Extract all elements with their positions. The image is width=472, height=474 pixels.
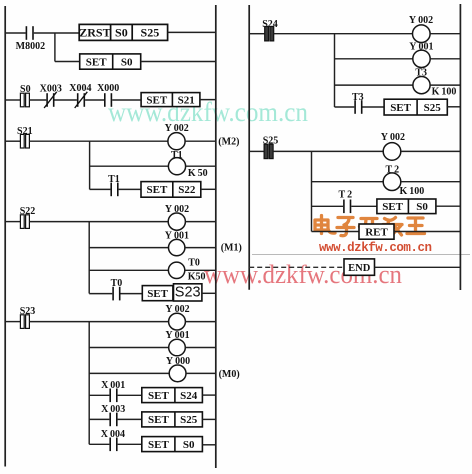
wire rung6 left bbox=[249, 33, 264, 35]
svg-text:K 100: K 100 bbox=[400, 186, 425, 197]
function block SET (S23) bbox=[142, 286, 173, 301]
wire X003 to SET S25 bbox=[118, 418, 142, 420]
wire coil to rail rung4 bbox=[185, 221, 215, 223]
svg-text:T3: T3 bbox=[415, 68, 427, 79]
wire branch to timer T2 bbox=[312, 181, 384, 183]
function block SET S22 bbox=[141, 182, 201, 198]
svg-text:(M2): (M2) bbox=[218, 137, 239, 148]
wire branch to SET S0 bbox=[55, 61, 80, 63]
contact T0 bbox=[112, 287, 120, 301]
svg-text:S21: S21 bbox=[17, 126, 33, 137]
svg-text:X004: X004 bbox=[69, 83, 91, 94]
svg-text:(M1): (M1) bbox=[221, 243, 242, 254]
right power rail L2 bbox=[459, 4, 461, 290]
wire Y001 to rail rung6 bbox=[430, 58, 460, 60]
svg-text:S22: S22 bbox=[20, 206, 36, 217]
svg-text:ZRST: ZRST bbox=[79, 26, 110, 40]
contact T3 bbox=[354, 100, 362, 114]
right power rail L1 bbox=[215, 5, 217, 468]
svg-text:SET: SET bbox=[382, 201, 403, 213]
svg-text:T1: T1 bbox=[171, 150, 183, 161]
function block SET S0 b bbox=[142, 437, 203, 452]
wire rung7 left bbox=[249, 150, 264, 152]
coil Y000 (M0) bbox=[169, 365, 186, 382]
contact S24 bbox=[265, 27, 274, 41]
coil Y002 rung4 bbox=[168, 213, 185, 230]
wire branch to contact X003 rung5 bbox=[89, 418, 109, 420]
svg-text:S25: S25 bbox=[263, 136, 279, 147]
wire S21 to coil Y002 bbox=[29, 140, 168, 142]
contact S22 bbox=[20, 215, 29, 229]
wire junction S22 branch bbox=[88, 222, 90, 294]
svg-text:Y 002: Y 002 bbox=[409, 15, 433, 26]
wire rung3 left bbox=[5, 140, 20, 142]
contact X000 bbox=[104, 93, 112, 107]
svg-text:S24: S24 bbox=[262, 19, 278, 30]
svg-text:SET: SET bbox=[390, 102, 411, 114]
svg-text:S0: S0 bbox=[416, 201, 428, 213]
contact S21 bbox=[20, 134, 29, 148]
wire SET S23 to rail bbox=[202, 292, 216, 294]
svg-text:M8002: M8002 bbox=[16, 41, 45, 52]
svg-text:SET: SET bbox=[86, 56, 107, 68]
wire SET S25 to rail bbox=[202, 418, 215, 420]
svg-text:S25: S25 bbox=[180, 414, 198, 426]
wire branch to RET bbox=[312, 231, 360, 233]
wire T0 to SET S23 bbox=[121, 293, 143, 295]
wire branch to contact T3 bbox=[335, 106, 355, 108]
wire SET S21 to rail bbox=[200, 99, 216, 101]
wire Y001 to rail bbox=[185, 247, 216, 249]
wire X000 to SET S21 bbox=[112, 99, 141, 101]
state block S23 bbox=[174, 284, 202, 301]
wire junction S24 branch bbox=[334, 34, 336, 107]
wire branch to coil Y001 bbox=[89, 247, 168, 249]
wire X001 to SET S24 bbox=[118, 394, 142, 396]
svg-text:Y 001: Y 001 bbox=[165, 230, 189, 241]
wire branch to contact T0 bbox=[89, 293, 112, 295]
svg-text:(M0): (M0) bbox=[219, 369, 240, 380]
wire branch to contact X001 bbox=[89, 394, 109, 396]
function block SET S25 r bbox=[384, 99, 447, 115]
svg-text:T1: T1 bbox=[108, 174, 120, 185]
svg-text:K 50: K 50 bbox=[188, 168, 208, 179]
wire rung1 to ZRST bbox=[34, 32, 79, 34]
wire Y001 to rail rung5 bbox=[185, 347, 216, 349]
svg-text:SET: SET bbox=[147, 184, 168, 196]
wire END left bbox=[249, 266, 344, 268]
wire T1 to rail bbox=[186, 165, 216, 167]
svg-text:T 2: T 2 bbox=[338, 190, 352, 201]
svg-text:T0: T0 bbox=[111, 278, 123, 289]
wire ZRST to rail bbox=[168, 31, 216, 33]
decorative scan artifact line bbox=[252, 254, 470, 256]
wire END to rail bbox=[375, 266, 461, 268]
svg-text:END: END bbox=[348, 263, 371, 274]
timer coil T0 bbox=[168, 262, 184, 278]
wire branch to timer T0 bbox=[89, 269, 168, 271]
svg-text:SET: SET bbox=[148, 414, 169, 426]
svg-text:T 2: T 2 bbox=[385, 164, 399, 175]
contact X004 bbox=[75, 92, 88, 108]
wire RET to rail bbox=[394, 231, 460, 233]
left power rail L2 bbox=[248, 5, 250, 290]
coil Y002 rung7 bbox=[383, 143, 401, 161]
function block SET S0 a bbox=[80, 54, 141, 69]
svg-text:Y 002: Y 002 bbox=[381, 132, 405, 143]
wire branch to coil Y000 bbox=[89, 372, 169, 374]
wire branch to timer T3 bbox=[335, 84, 413, 86]
svg-text:S22: S22 bbox=[178, 184, 196, 196]
wire Y002 to rail rung6 bbox=[430, 33, 460, 35]
wire branch to coil Y001 rung5 bbox=[89, 347, 169, 349]
svg-text:Y 001: Y 001 bbox=[165, 330, 189, 341]
svg-text:S25: S25 bbox=[141, 26, 160, 40]
svg-text:S0: S0 bbox=[183, 439, 195, 451]
function block SET S21 bbox=[141, 93, 200, 107]
wire SET S25 to rail r bbox=[447, 106, 460, 108]
timer coil T2 bbox=[383, 173, 401, 191]
wire X003 to X004 bbox=[55, 99, 77, 101]
svg-text:X000: X000 bbox=[97, 83, 119, 94]
wire T0 to rail bbox=[185, 269, 216, 271]
wire X004 to X000 bbox=[85, 99, 104, 101]
wire SET S24 to rail bbox=[202, 394, 215, 396]
function block SET S25 bbox=[142, 412, 203, 427]
svg-text:X 004: X 004 bbox=[101, 429, 125, 440]
coil Y001 rung5 bbox=[169, 339, 186, 356]
wire branch to contact T1 bbox=[90, 188, 111, 190]
wire SET S22 to rail bbox=[201, 188, 216, 190]
wire junction S23 branch bbox=[88, 322, 90, 445]
function block SET S24 bbox=[142, 388, 203, 403]
wire rung1 left bbox=[5, 32, 26, 34]
svg-text:S0: S0 bbox=[20, 84, 31, 95]
coil Y002 (M2) bbox=[168, 133, 185, 150]
wire S24 to coil Y002 r bbox=[274, 33, 413, 35]
end block END bbox=[344, 259, 375, 275]
wire SET S0 to rail bbox=[141, 61, 216, 63]
coil Y001 (M1) bbox=[169, 239, 185, 255]
wire junction rung1 branch bbox=[54, 33, 56, 62]
svg-text:X 001: X 001 bbox=[101, 380, 125, 391]
svg-text:X003: X003 bbox=[40, 83, 62, 94]
wire junction S25 branch bbox=[311, 151, 313, 231]
svg-text:Y 002: Y 002 bbox=[165, 304, 189, 315]
contact S23 bbox=[20, 315, 29, 329]
wire rung5 left bbox=[5, 321, 20, 323]
wire branch to contact T2 bbox=[312, 205, 344, 207]
function block ZRST S0 S25 bbox=[79, 24, 167, 40]
contact S25 bbox=[264, 144, 273, 158]
wire branch to timer T1 bbox=[90, 165, 169, 167]
contact T1 bbox=[110, 183, 118, 197]
wire junction S21 branch bbox=[89, 141, 91, 189]
wire branch to coil Y001 rung6 bbox=[335, 58, 413, 60]
svg-text:S21: S21 bbox=[178, 94, 195, 106]
left power rail L1 bbox=[4, 6, 6, 467]
svg-text:SET: SET bbox=[148, 390, 169, 402]
wire rung4 left bbox=[5, 221, 20, 223]
wire branch to contact X004 rung5 bbox=[89, 443, 109, 445]
svg-text:T0: T0 bbox=[188, 257, 200, 268]
decorative watermark logo bbox=[315, 216, 425, 236]
contact X003 bbox=[44, 92, 57, 108]
svg-text:www.dzkfw.com.cn: www.dzkfw.com.cn bbox=[319, 241, 432, 255]
svg-text:www.dzkfw.com.cn: www.dzkfw.com.cn bbox=[108, 97, 308, 127]
svg-text:Y 002: Y 002 bbox=[165, 204, 189, 215]
svg-text:K50: K50 bbox=[188, 271, 206, 282]
svg-text:S0: S0 bbox=[115, 26, 128, 40]
coil Y001 rung6 bbox=[413, 50, 430, 67]
wire Y000 to rail bbox=[186, 372, 216, 374]
timer coil T3 bbox=[413, 77, 430, 94]
wire SET S0 to rail r bbox=[436, 205, 461, 207]
wire X004 to SET S0 bbox=[118, 443, 142, 445]
contact M8002 bbox=[26, 26, 34, 40]
contact X003 rung5 bbox=[109, 413, 117, 427]
coil Y002 rung6 bbox=[413, 25, 431, 43]
wire SET S0 to rail bbox=[202, 444, 216, 446]
svg-text:Y 002: Y 002 bbox=[165, 123, 189, 134]
contact S0 bbox=[20, 93, 29, 107]
svg-text:Y 001: Y 001 bbox=[409, 42, 433, 53]
svg-text:SET: SET bbox=[146, 94, 167, 106]
wire coil to rail rung5 bbox=[185, 321, 215, 323]
svg-text:S23: S23 bbox=[20, 306, 36, 317]
wire rung2 left bbox=[5, 99, 20, 101]
wire T1 to SET S22 bbox=[119, 188, 141, 190]
coil Y002 rung5 bbox=[169, 313, 186, 330]
wire S23 to coil Y002 bbox=[29, 321, 168, 323]
contact X004 rung5 bbox=[109, 438, 117, 452]
svg-text:K 100: K 100 bbox=[432, 87, 457, 98]
return block RET bbox=[359, 224, 394, 239]
wire S25 to coil Y002 b bbox=[273, 150, 383, 152]
svg-text:S23: S23 bbox=[175, 284, 201, 300]
wire T3 to rail bbox=[430, 84, 460, 86]
svg-text:SET: SET bbox=[147, 288, 168, 300]
svg-text:RET: RET bbox=[365, 226, 388, 238]
svg-text:T3: T3 bbox=[352, 92, 364, 103]
wire Y002 to rail rung7 bbox=[401, 150, 461, 152]
svg-text:S24: S24 bbox=[180, 390, 198, 402]
contact X001 bbox=[109, 389, 117, 403]
svg-text:SET: SET bbox=[148, 439, 169, 451]
svg-text:X 003: X 003 bbox=[101, 404, 125, 415]
wire S22 to coil Y002 bbox=[29, 221, 168, 223]
wire S0 to X003 bbox=[29, 99, 46, 101]
function block SET S0 r bbox=[377, 199, 436, 214]
wire T2 to rail bbox=[401, 181, 461, 183]
wire T2 to SET S0 r bbox=[351, 205, 377, 207]
contact T2 bbox=[343, 200, 351, 214]
svg-text:S25: S25 bbox=[424, 102, 442, 114]
wire coil Y002 to rail bbox=[185, 140, 216, 142]
timer coil T1 bbox=[168, 158, 185, 175]
wire T3 to SET S25 r bbox=[363, 106, 385, 108]
svg-text:Y 000: Y 000 bbox=[166, 356, 190, 367]
svg-text:S0: S0 bbox=[121, 56, 133, 68]
